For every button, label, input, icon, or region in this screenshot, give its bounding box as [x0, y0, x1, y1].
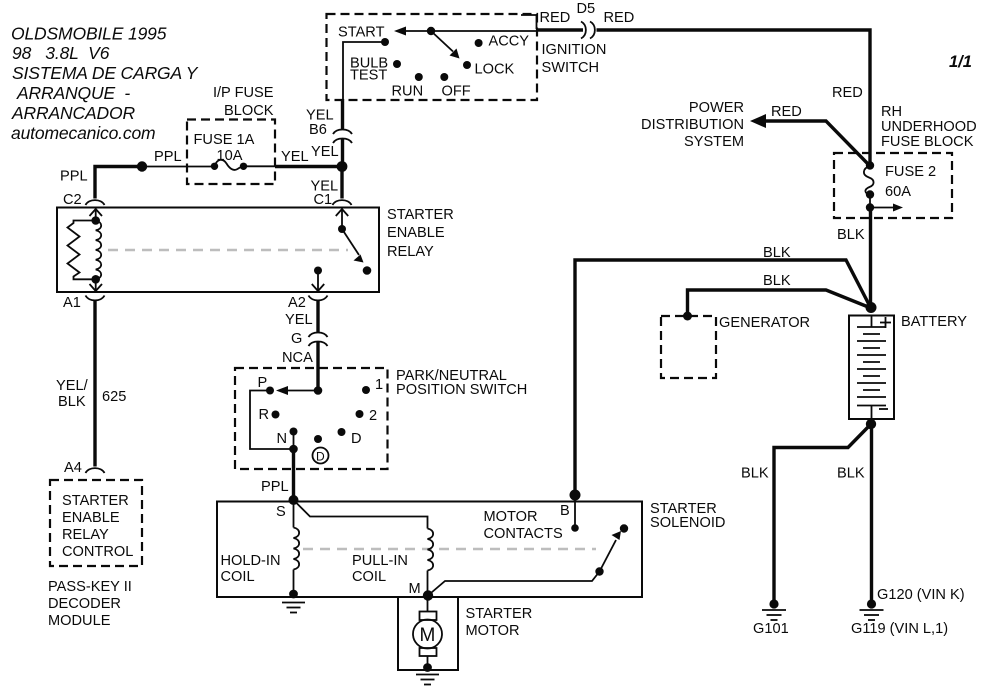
- svg-text:PPL: PPL: [261, 479, 289, 495]
- svg-text:M: M: [409, 581, 421, 597]
- svg-text:STARTER: STARTER: [466, 606, 533, 622]
- svg-text:OLDSMOBILE 1995: OLDSMOBILE 1995: [11, 24, 167, 44]
- wire PPL PNP to solenoid S: [292, 449, 295, 500]
- svg-text:YEL: YEL: [311, 144, 339, 160]
- wire to power distribution with arrowhead: [750, 114, 766, 128]
- wire A1 down to A4: [93, 301, 96, 467]
- relay A2 contact dot and arrow down: [314, 267, 322, 275]
- motor symbol: [413, 596, 442, 668]
- connector A4: [86, 468, 105, 473]
- connector A1: [86, 296, 105, 301]
- svg-text:FUSE BLOCK: FUSE BLOCK: [881, 134, 974, 150]
- svg-text:G101: G101: [753, 621, 789, 637]
- pull-in coil: [428, 529, 434, 571]
- label STARTER MOTOR: [466, 606, 533, 639]
- svg-text:IGNITION: IGNITION: [542, 42, 607, 58]
- PNP wiper arrow to P: [282, 390, 318, 392]
- svg-text:D5: D5: [577, 1, 596, 17]
- svg-text:10A: 10A: [217, 148, 243, 164]
- svg-text:MODULE: MODULE: [48, 613, 111, 629]
- PNP middle contact dot: [314, 435, 322, 443]
- label PULL-IN COIL: [352, 553, 408, 585]
- arrowhead pointing to START: [394, 27, 406, 36]
- connector A2: [309, 296, 328, 301]
- ignition switch dashed box: [327, 14, 538, 100]
- junction dot PPL: [137, 161, 147, 171]
- svg-text:M: M: [420, 625, 436, 646]
- svg-text:SWITCH: SWITCH: [542, 60, 600, 76]
- svg-text:RED: RED: [771, 104, 802, 120]
- solenoid M terminal dot: [423, 590, 433, 600]
- svg-text:NCA: NCA: [282, 350, 313, 366]
- wire battery to G101 ground: [774, 424, 871, 601]
- svg-text:I/P FUSE: I/P FUSE: [213, 85, 274, 101]
- svg-text:DISTRIBUTION: DISTRIBUTION: [641, 117, 744, 133]
- relay coil bottom dot: [91, 275, 100, 284]
- PNP contact dot P: [266, 387, 274, 395]
- wire PPL corner to dot: [95, 167, 142, 199]
- relay coil terminal arrow up to C2: [95, 210, 97, 221]
- starter motor box: [398, 597, 458, 670]
- generator dashed box: [661, 316, 716, 378]
- svg-text:BLK: BLK: [58, 394, 86, 410]
- svg-text:C1: C1: [314, 192, 333, 208]
- svg-text:1: 1: [375, 377, 383, 393]
- svg-text:HOLD-IN: HOLD-IN: [221, 553, 281, 569]
- wire NCA G connector to PNP pivot: [316, 341, 319, 391]
- title block text: [11, 24, 199, 144]
- RH underhood fuse block label: [881, 104, 977, 150]
- label HOLD-IN COIL: [221, 553, 281, 585]
- ignition switch pivot dot: [427, 27, 435, 35]
- wire BLK fuse 2 to battery: [869, 208, 872, 308]
- solenoid internal gray dashed line: [303, 548, 596, 551]
- ignition switch arm toward LOCK: [431, 31, 453, 52]
- pull-in coil wire to M: [427, 571, 429, 596]
- svg-text:COIL: COIL: [221, 569, 255, 585]
- ground G119: [860, 599, 884, 620]
- wire P contact to N contact: [250, 391, 294, 450]
- wire BLK generator to battery: [688, 290, 870, 316]
- I/P fuse block label: [213, 85, 274, 119]
- battery box: [849, 316, 894, 420]
- ignition switch corner notch: [521, 15, 537, 29]
- svg-text:YEL: YEL: [281, 149, 309, 165]
- svg-text:FUSE 1A: FUSE 1A: [194, 132, 255, 148]
- connector C1: [333, 200, 352, 205]
- svg-text:ACCY: ACCY: [489, 34, 530, 50]
- svg-text:R: R: [259, 407, 270, 423]
- hold-in coil: [294, 528, 300, 570]
- B contact dot: [571, 524, 579, 532]
- svg-text:PULL-IN: PULL-IN: [352, 553, 408, 569]
- wire N contact down: [293, 432, 295, 450]
- fuse 2 element: [866, 161, 874, 169]
- label YEL/ BLK: [56, 378, 89, 410]
- relay switch pivot dot: [338, 225, 346, 233]
- wire BLK solenoid B up and over to battery: [575, 260, 870, 495]
- wire RED ignition to D5: [537, 28, 584, 31]
- generator terminal dot: [683, 312, 692, 321]
- circled D: [313, 448, 329, 464]
- svg-text:CONTROL: CONTROL: [62, 544, 133, 560]
- ignition switch contact dots: [381, 38, 389, 46]
- park/neutral position switch label: [396, 368, 527, 398]
- svg-text:BLK: BLK: [763, 273, 791, 289]
- motor ground: [416, 663, 439, 684]
- svg-text:BLOCK: BLOCK: [224, 103, 274, 119]
- connector G arcs: [309, 333, 328, 338]
- relay coil top dot: [91, 216, 100, 225]
- svg-text:BATTERY: BATTERY: [901, 314, 967, 330]
- wire fuse 1A to box edge: [244, 165, 276, 167]
- svg-text:625: 625: [102, 389, 126, 405]
- svg-text:YEL/: YEL/: [56, 378, 89, 394]
- svg-text:START: START: [338, 25, 385, 41]
- ignition switch label: [542, 42, 607, 76]
- battery symbol: [857, 316, 886, 420]
- svg-text:RELAY: RELAY: [62, 527, 109, 543]
- svg-text:G: G: [291, 331, 302, 347]
- svg-text:PASS-KEY II: PASS-KEY II: [48, 579, 132, 595]
- svg-text:DECODER: DECODER: [48, 596, 121, 612]
- svg-text:ENABLE: ENABLE: [387, 225, 445, 241]
- relay switch arm: [342, 229, 359, 255]
- svg-text:C2: C2: [63, 192, 82, 208]
- I/P fuse block dashed box: [187, 120, 275, 185]
- hold-in coil wire down: [293, 500, 295, 528]
- starter enable relay label: [387, 207, 454, 260]
- svg-text:D: D: [316, 450, 325, 464]
- PNP contact dot 2: [356, 410, 364, 418]
- relay internal gray dashed line: [108, 249, 348, 252]
- svg-text:A2: A2: [288, 295, 306, 311]
- svg-text:BLK: BLK: [741, 466, 769, 482]
- hold-in coil wire to ground: [293, 570, 295, 595]
- wire S to pull-in coil: [294, 500, 428, 529]
- B wire into solenoid: [574, 495, 576, 528]
- svg-text:2: 2: [369, 408, 377, 424]
- svg-text:G120 (VIN K): G120 (VIN K): [877, 587, 965, 603]
- battery minus sign: [879, 408, 888, 410]
- svg-text:ARRANCADOR: ARRANCADOR: [11, 103, 135, 123]
- svg-text:P: P: [258, 375, 268, 391]
- pass-key II decoder module label: [48, 579, 132, 629]
- svg-text:A4: A4: [64, 460, 82, 476]
- svg-text:POSITION SWITCH: POSITION SWITCH: [396, 382, 527, 398]
- svg-text:POWER: POWER: [689, 100, 744, 116]
- relay resistor zigzag: [68, 221, 96, 280]
- battery top junction dot: [866, 302, 877, 313]
- svg-text:LOCK: LOCK: [475, 62, 515, 78]
- svg-text:CONTACTS: CONTACTS: [484, 526, 563, 542]
- svg-text:ENABLE: ENABLE: [62, 510, 120, 526]
- svg-text:GENERATOR: GENERATOR: [719, 315, 810, 331]
- relay coil terminal arrow down to A1: [95, 279, 97, 290]
- PNP contact dot 1: [362, 386, 370, 394]
- hold-in coil ground: [282, 590, 305, 613]
- relay switch arrow up to C1: [341, 210, 343, 230]
- junction dot below N: [289, 445, 298, 454]
- starter enable relay box: [57, 208, 379, 293]
- PNP contact dot D: [338, 428, 346, 436]
- svg-text:60A: 60A: [885, 184, 911, 200]
- wire YEL B6 to junction: [341, 138, 344, 167]
- connector B6 arcs: [333, 130, 352, 135]
- svg-text:TEST: TEST: [350, 68, 387, 84]
- wire battery to G119 ground: [870, 424, 873, 601]
- wire START contact down to B6: [343, 42, 385, 100]
- svg-text:UNDERHOOD: UNDERHOOD: [881, 119, 977, 135]
- PNP contact dot N: [290, 428, 298, 436]
- svg-text:BLK: BLK: [837, 227, 865, 243]
- relay coil (right bumps): [96, 221, 101, 280]
- svg-text:SYSTEM: SYSTEM: [684, 134, 744, 150]
- wire YEL junction down to C1: [340, 167, 343, 199]
- svg-text:MOTOR: MOTOR: [466, 623, 520, 639]
- svg-text:G119 (VIN L,1): G119 (VIN L,1): [851, 621, 948, 637]
- svg-text:RUN: RUN: [392, 84, 424, 100]
- label MOTOR CONTACTS: [484, 509, 563, 542]
- ignition switch wiper line to RED feed: [398, 30, 537, 32]
- power distribution system label: [641, 100, 744, 150]
- motor contacts upper dot: [620, 524, 628, 532]
- svg-text:SOLENOID: SOLENOID: [650, 515, 725, 531]
- svg-text:S: S: [276, 504, 286, 520]
- svg-text:ARRANQUE -: ARRANQUE -: [16, 83, 130, 103]
- svg-text:B6: B6: [309, 122, 327, 138]
- wire PPL dot to fuse 1A: [142, 166, 215, 168]
- svg-text:FUSE 2: FUSE 2: [885, 164, 936, 180]
- wire A2 down to G connector: [316, 301, 319, 332]
- svg-text:YEL: YEL: [285, 312, 313, 328]
- connector C2: [86, 200, 105, 205]
- wire YEL ignition to B6 connector: [341, 99, 344, 129]
- connector D5 arcs: [581, 22, 586, 39]
- motor contacts arm with arrowhead: [600, 540, 617, 572]
- starter solenoid label: [650, 501, 725, 531]
- arrowhead toward LOCK: [450, 49, 460, 59]
- svg-text:D: D: [351, 431, 362, 447]
- battery bottom dot: [866, 419, 876, 429]
- fuse 1A element: [211, 163, 218, 170]
- starter enable relay control label: [62, 493, 133, 560]
- svg-text:RED: RED: [604, 10, 635, 26]
- PNP contact dot R: [272, 411, 280, 419]
- svg-text:PPL: PPL: [154, 149, 182, 165]
- svg-text:RELAY: RELAY: [387, 244, 434, 260]
- svg-text:BLK: BLK: [763, 245, 791, 261]
- svg-text:RED: RED: [540, 10, 571, 26]
- svg-text:OFF: OFF: [442, 84, 471, 100]
- solenoid B terminal dot: [570, 490, 581, 501]
- motor contacts lower dot: [595, 567, 603, 575]
- svg-text:COIL: COIL: [352, 569, 386, 585]
- fuse 2 feed arrow: [874, 207, 897, 209]
- PNP pivot dot: [314, 386, 323, 395]
- svg-text:STARTER: STARTER: [387, 207, 454, 223]
- svg-text:automecanico.com: automecanico.com: [11, 123, 155, 143]
- svg-text:RED: RED: [832, 85, 863, 101]
- motor contacts wire from M: [428, 572, 600, 596]
- svg-text:MOTOR: MOTOR: [484, 509, 538, 525]
- starter solenoid box: [217, 502, 642, 598]
- svg-text:SISTEMA DE CARGA Y: SISTEMA DE CARGA Y: [12, 63, 199, 83]
- svg-text:PPL: PPL: [60, 169, 88, 185]
- svg-text:N: N: [277, 431, 288, 447]
- svg-text:1/1: 1/1: [949, 53, 972, 71]
- svg-text:B: B: [560, 503, 570, 519]
- solenoid S terminal dot: [289, 495, 299, 505]
- ignition switch position labels: [338, 25, 529, 100]
- svg-text:BLK: BLK: [837, 466, 865, 482]
- relay switch contact dot: [363, 266, 372, 275]
- wire RED D5 to right corner and down: [597, 30, 871, 166]
- ground G101: [762, 599, 786, 620]
- fuse 2 dashed box: [834, 153, 952, 218]
- starter enable relay control dashed box: [50, 480, 142, 566]
- svg-text:STARTER: STARTER: [62, 493, 129, 509]
- svg-text:RH: RH: [881, 104, 902, 120]
- junction dot YEL node: [337, 161, 348, 172]
- wire YEL fuse block to junction: [275, 165, 342, 168]
- svg-text:98 3.8L V6: 98 3.8L V6: [12, 43, 110, 63]
- svg-text:A1: A1: [63, 295, 81, 311]
- battery plus sign: [880, 317, 891, 328]
- park/neutral position switch dashed box: [235, 368, 388, 469]
